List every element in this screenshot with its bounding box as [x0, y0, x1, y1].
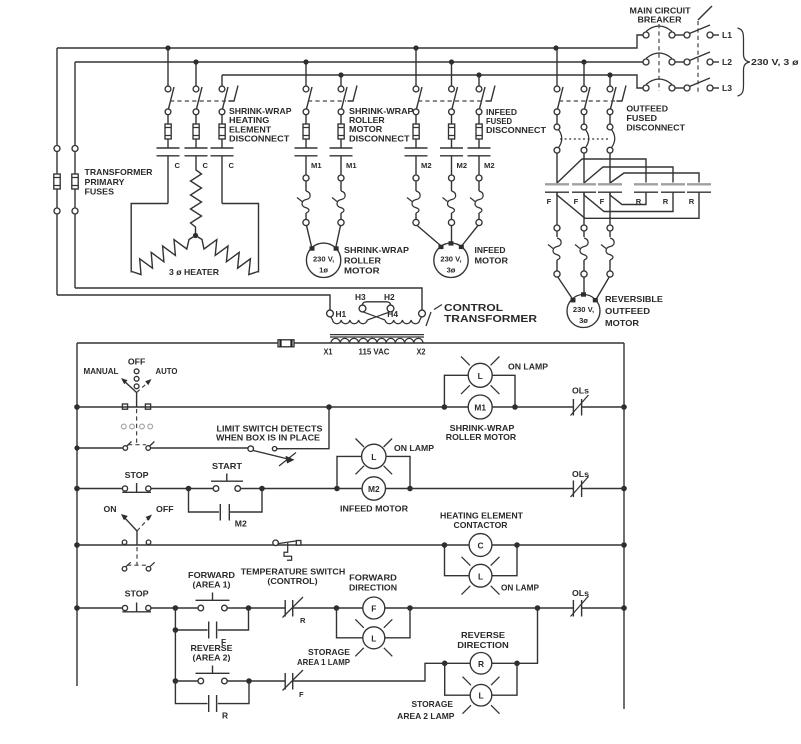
crossover wire T1 to R3: [557, 192, 699, 218]
svg-text:FUSES: FUSES: [85, 187, 115, 197]
infeed interlock dashed + handle: [418, 86, 495, 102]
svg-text:230 V,: 230 V,: [573, 305, 594, 314]
secondary winding: [331, 338, 423, 343]
outfeed interlock dashed + handle: [559, 86, 626, 102]
wire rung 5 to OLs: [410, 607, 573, 609]
junction dots on feed wires: [165, 45, 612, 77]
terminal H4: [387, 309, 425, 319]
svg-text:OLs: OLs: [572, 588, 589, 598]
node rung6 aux rejoin: [246, 678, 252, 684]
heater loop wires: [131, 204, 258, 273]
svg-text:(CONTROL): (CONTROL): [267, 576, 318, 586]
overload heater lead pole2: [332, 156, 345, 247]
svg-text:ON: ON: [104, 504, 117, 514]
primary winding right: [385, 317, 422, 324]
motor M2 infeed motor: [434, 241, 508, 277]
wire rung 5 segment 2: [227, 607, 285, 609]
terminal H3: [355, 292, 366, 312]
wire rung 4: [77, 544, 445, 546]
coil C heating element contactor: [440, 511, 524, 557]
svg-text:F: F: [299, 690, 304, 699]
svg-text:H4: H4: [387, 309, 398, 319]
lamp L on-lamp rung4: [462, 557, 540, 595]
terminal H2: [384, 292, 395, 312]
node rung3 aux rejoin: [259, 486, 265, 492]
label X1 115VAC X2: [324, 347, 426, 357]
label transformer primary fuses: [85, 167, 153, 197]
label main circuit breaker: [630, 6, 692, 25]
infeed overload lead 3: [462, 156, 483, 246]
contactor contact C pole1: [157, 148, 181, 204]
label heating element disconnect: [229, 106, 292, 144]
svg-text:115 VAC: 115 VAC: [359, 347, 390, 357]
wire rung 2 from rail: [77, 447, 123, 449]
svg-text:L: L: [478, 691, 483, 701]
wire rung 6 feed: [174, 630, 176, 681]
coil R reverse direction: [445, 630, 517, 674]
svg-text:C: C: [175, 161, 181, 170]
motor M1 shrink-wrap roller motor: [306, 243, 409, 277]
right rail: [623, 343, 625, 709]
node rung3 aux tap: [186, 486, 192, 492]
branch M1 / ON lamp: [442, 375, 518, 410]
svg-text:STORAGE: STORAGE: [412, 699, 454, 709]
svg-text:ON LAMP: ON LAMP: [501, 583, 539, 593]
svg-text:OLs: OLs: [572, 386, 589, 396]
contact M2 pole2: [440, 148, 467, 170]
node rung5 aux tap: [173, 605, 179, 611]
svg-text:C: C: [203, 161, 209, 170]
contactor contact C pole2: [185, 148, 209, 170]
svg-text:L: L: [371, 633, 376, 643]
svg-text:3ø: 3ø: [579, 316, 588, 325]
crossover wire T2 to R2: [584, 192, 673, 211]
svg-text:H2: H2: [384, 292, 395, 302]
disconnect pole 1: [165, 48, 174, 148]
limit switch LS1: [216, 404, 332, 466]
svg-text:FORWARD: FORWARD: [349, 573, 397, 583]
svg-text:F: F: [547, 197, 552, 206]
infeed pole 2: [449, 62, 458, 148]
svg-text:TRANSFORMER: TRANSFORMER: [85, 167, 153, 177]
branch C / ON lamp: [442, 542, 520, 576]
svg-text:SHRINK-WRAP: SHRINK-WRAP: [344, 245, 409, 255]
svg-text:X2: X2: [417, 347, 426, 357]
svg-text:AUTO: AUTO: [156, 366, 178, 376]
svg-text:L: L: [478, 571, 483, 581]
svg-text:STOP: STOP: [125, 589, 149, 599]
svg-text:START: START: [212, 461, 243, 471]
svg-text:M2: M2: [368, 484, 380, 494]
svg-text:L2: L2: [722, 57, 732, 67]
contact R2: [661, 184, 685, 206]
temperature switch TS1: [241, 540, 346, 586]
contactor contact C pole3: [211, 148, 235, 204]
infeed pole 3: [476, 75, 485, 148]
node rung6 left: [173, 678, 179, 684]
contact M1 pole2: [330, 148, 358, 170]
overload contact OLs rung1: [515, 386, 624, 416]
auxiliary contact F: [173, 608, 249, 647]
rung 3 wire: [77, 488, 122, 490]
svg-text:X1: X1: [324, 347, 333, 357]
disconnect pole 2: [193, 62, 202, 148]
NC contact R interlock: [283, 597, 337, 625]
heater element vertical resistor: [191, 165, 202, 233]
svg-text:F: F: [371, 604, 376, 614]
outfeed breaker pole 2: [581, 124, 589, 183]
svg-text:ON LAMP: ON LAMP: [394, 443, 434, 453]
svg-text:DIRECTION: DIRECTION: [457, 640, 509, 650]
contact F1: [545, 184, 569, 206]
coil M2: [337, 477, 410, 514]
selector S2 lower row: [122, 547, 155, 571]
svg-text:230 V, 3 ø: 230 V, 3 ø: [751, 57, 800, 67]
contact M1 pole1: [295, 148, 323, 170]
wire rung 1: [77, 406, 444, 408]
svg-text:L1: L1: [722, 30, 732, 40]
top rail right segment: [294, 342, 624, 344]
branch F / storage lamp: [334, 605, 413, 638]
terminal H1: [327, 309, 347, 319]
svg-text:FORWARD: FORWARD: [188, 570, 235, 580]
svg-text:M1: M1: [346, 161, 357, 170]
wire L3 feed: [222, 75, 643, 88]
svg-text:M2: M2: [421, 161, 432, 170]
svg-text:MOTOR: MOTOR: [349, 124, 382, 134]
crossover wire L3 to R3: [610, 173, 699, 183]
svg-text:STOP: STOP: [125, 470, 149, 480]
overload heater lead pole1: [297, 156, 312, 247]
wire rung 3 segment: [151, 488, 213, 490]
svg-text:H1: H1: [336, 309, 347, 319]
selector switch S2 on-off: [104, 504, 174, 545]
outfeed pole 3 switch: [607, 75, 616, 124]
selector lower row (auto contacts): [121, 409, 154, 450]
branch R / storage lamp: [442, 661, 520, 696]
contact M2 pole3: [468, 148, 495, 170]
svg-text:(AREA 2): (AREA 2): [193, 653, 231, 663]
heater element left resistor: [132, 236, 196, 275]
svg-text:PRIMARY: PRIMARY: [85, 177, 125, 187]
svg-text:L3: L3: [722, 83, 732, 93]
transformer core: [330, 335, 424, 337]
label control transformer + callout: [426, 302, 537, 326]
svg-text:DIRECTION: DIRECTION: [349, 583, 397, 593]
svg-text:MOTOR: MOTOR: [475, 255, 509, 265]
svg-text:OFF: OFF: [156, 504, 174, 514]
lamp L on-lamp rung3: [356, 439, 435, 475]
stop pushbutton PB3: [122, 589, 151, 612]
wire rung 5 segment: [151, 607, 198, 609]
svg-text:1ø: 1ø: [319, 266, 328, 275]
svg-text:230 V,: 230 V,: [313, 255, 334, 264]
svg-text:R: R: [300, 616, 306, 625]
svg-text:FUSED: FUSED: [626, 113, 657, 123]
svg-text:R: R: [663, 197, 669, 206]
svg-text:L: L: [371, 452, 376, 462]
lamp L storage area 2: [397, 677, 499, 721]
breaker trip linkage dashed: [658, 24, 660, 91]
start pushbutton PB2: [211, 461, 243, 491]
svg-text:ROLLER: ROLLER: [344, 255, 381, 265]
svg-text:M2: M2: [457, 161, 468, 170]
svg-text:3 ø HEATER: 3 ø HEATER: [169, 267, 219, 277]
infeed overload lead 1: [407, 156, 441, 246]
contact R3: [687, 184, 711, 206]
svg-text:3ø: 3ø: [447, 266, 456, 275]
NC contact F interlock: [283, 663, 445, 699]
top rail left segment: [77, 342, 278, 344]
outfeed breaker pole 1: [554, 124, 562, 183]
svg-text:TRANSFORMER: TRANSFORMER: [444, 313, 537, 325]
svg-text:OUTFEED: OUTFEED: [605, 306, 650, 316]
outfeed overload lead 1: [548, 192, 573, 299]
svg-text:INFEED MOTOR: INFEED MOTOR: [340, 504, 408, 514]
coil M1: [444, 395, 516, 442]
wire rung 6 segment: [227, 680, 285, 682]
svg-text:F: F: [574, 197, 579, 206]
roller disconnect pole 2: [338, 75, 347, 148]
svg-text:M2: M2: [484, 161, 495, 170]
node rung5 aux rejoin: [246, 605, 252, 611]
interlock dashed + handle: [170, 86, 238, 102]
wire L2 feed: [75, 61, 643, 63]
crossover wire T3 to R1: [610, 192, 646, 204]
svg-text:DISCONNECT: DISCONNECT: [229, 134, 290, 144]
crossover wires: [363, 312, 385, 320]
svg-text:MANUAL: MANUAL: [84, 366, 119, 376]
svg-text:C: C: [229, 161, 235, 170]
H3-H2 jumper: [363, 302, 391, 305]
svg-text:AREA 1 LAMP: AREA 1 LAMP: [297, 657, 350, 667]
svg-text:TEMPERATURE SWITCH: TEMPERATURE SWITCH: [241, 567, 346, 577]
roller disconnect pole 1: [303, 62, 312, 148]
outfeed breaker pole 3: [607, 124, 615, 183]
svg-text:MOTOR: MOTOR: [605, 318, 639, 328]
overload contact OLs rung3: [410, 469, 624, 497]
svg-text:M2: M2: [235, 519, 247, 529]
motor reversible outfeed motor: [567, 292, 663, 328]
contact R1: [634, 184, 658, 206]
svg-text:HEATING ELEMENT: HEATING ELEMENT: [440, 511, 524, 521]
svg-text:ROLLER MOTOR: ROLLER MOTOR: [446, 432, 516, 442]
contact F2: [572, 184, 596, 206]
svg-text:MOTOR: MOTOR: [344, 265, 380, 275]
control fuse: [278, 340, 294, 347]
infeed overload lead 2: [443, 156, 456, 242]
wire R coil to rung 5 riser: [517, 608, 538, 663]
forward pushbutton PB4: [188, 570, 235, 611]
infeed pole 1: [413, 48, 422, 148]
svg-text:CONTACTOR: CONTACTOR: [454, 520, 508, 530]
svg-text:F: F: [600, 197, 605, 206]
crossover wire L1 to R1: [557, 159, 646, 183]
label roller motor disconnect: [349, 106, 414, 143]
svg-text:ON LAMP: ON LAMP: [508, 362, 548, 372]
auxiliary contact R: [175, 681, 249, 721]
auxiliary contact M2: [189, 489, 263, 529]
svg-text:C: C: [477, 541, 483, 551]
coil F forward direction: [337, 573, 411, 620]
disconnect linkage dashed: [698, 6, 712, 92]
label infeed fused disconnect: [486, 107, 547, 135]
wire rung 3 segment 2: [241, 488, 338, 490]
left rail: [76, 343, 78, 686]
node rung5-rung6 join: [535, 605, 541, 611]
svg-text:WHEN BOX IS IN PLACE: WHEN BOX IS IN PLACE: [216, 433, 320, 443]
label outfeed fused disconnect: [626, 104, 686, 133]
primary winding left: [331, 317, 368, 324]
wire to H4: [75, 288, 422, 310]
svg-text:OFF: OFF: [128, 357, 146, 367]
outfeed pole 1 switch: [554, 48, 563, 124]
reverse pushbutton PB5: [175, 643, 233, 684]
svg-text:230 V,: 230 V,: [440, 255, 461, 264]
contact M2 pole1: [405, 148, 432, 170]
lamp L storage area 1: [297, 619, 392, 667]
svg-text:L: L: [478, 371, 483, 381]
fuse FU1: [54, 48, 60, 295]
heater element right resistor: [196, 236, 259, 275]
brace 230V 3ph: [738, 28, 800, 96]
svg-text:R: R: [689, 197, 695, 206]
svg-text:REVERSE: REVERSE: [191, 643, 233, 653]
breaker pole L2: [643, 52, 719, 65]
roller interlock dashed + handle: [308, 86, 357, 102]
svg-text:OLs: OLs: [572, 469, 589, 479]
wire to H1: [57, 295, 330, 310]
rail junction dots: [74, 404, 627, 611]
outfeed pole 2 switch: [581, 62, 590, 124]
svg-text:BREAKER: BREAKER: [638, 15, 682, 25]
svg-text:DISCONNECT: DISCONNECT: [349, 133, 411, 143]
contact F3: [598, 184, 622, 206]
stop pushbutton PB1: [122, 470, 151, 492]
outfeed overload lead 3: [596, 192, 614, 299]
wire rung 5 from rail: [77, 607, 122, 609]
svg-text:REVERSIBLE: REVERSIBLE: [605, 294, 663, 304]
svg-text:STORAGE: STORAGE: [308, 647, 350, 657]
node rail rung2: [74, 445, 79, 450]
fuse FU2: [72, 62, 78, 288]
svg-text:M1: M1: [311, 161, 322, 170]
breaker pole L3: [643, 78, 719, 91]
svg-text:M1: M1: [474, 403, 486, 413]
svg-text:(AREA 1): (AREA 1): [193, 580, 231, 590]
wire L1 feed: [57, 35, 643, 48]
svg-text:INFEED: INFEED: [475, 245, 506, 255]
selector switch S1 manual-off-auto: [84, 357, 178, 410]
svg-text:DISCONNECT: DISCONNECT: [486, 125, 547, 135]
breaker pole L1: [643, 25, 719, 38]
outfeed overload lead 2: [575, 192, 588, 293]
svg-text:R: R: [478, 659, 484, 669]
heater wye node: [193, 233, 198, 238]
svg-text:AREA 2 LAMP: AREA 2 LAMP: [397, 711, 455, 721]
lamp L on-lamp rung1: [461, 357, 548, 395]
outfeed breaker linkage dotted: [560, 138, 610, 140]
svg-text:REVERSE: REVERSE: [461, 630, 505, 640]
crossover wire L2 to R2: [584, 167, 673, 183]
wire rung 4 to rail: [517, 544, 624, 546]
branch M2 / ON lamp: [334, 456, 413, 491]
disconnect pole 3: [219, 75, 228, 148]
overload contact OLs rung5: [571, 588, 625, 617]
svg-text:R: R: [222, 711, 228, 721]
svg-text:H3: H3: [355, 292, 366, 302]
svg-text:DISCONNECT: DISCONNECT: [626, 123, 686, 133]
wire rung 2 to limit switch: [151, 447, 249, 449]
